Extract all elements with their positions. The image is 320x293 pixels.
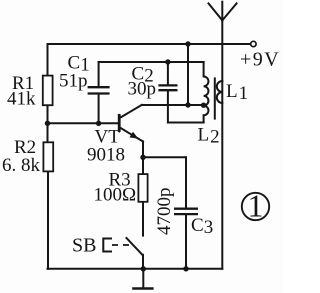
svg-text:51p: 51p (59, 71, 88, 92)
svg-text:L2: L2 (198, 125, 221, 148)
svg-text:+9V: +9V (240, 49, 280, 71)
svg-text:SB: SB (72, 235, 96, 257)
svg-text:30p: 30p (128, 79, 157, 100)
svg-text:41k: 41k (7, 89, 36, 110)
svg-text:100Ω: 100Ω (94, 185, 137, 206)
svg-text:9018: 9018 (87, 145, 125, 166)
svg-text:4700p: 4700p (154, 188, 175, 236)
svg-text:L1: L1 (226, 81, 249, 104)
svg-text:C3: C3 (191, 215, 213, 238)
svg-text:6. 8k: 6. 8k (2, 155, 41, 176)
svg-text:1: 1 (248, 188, 264, 224)
